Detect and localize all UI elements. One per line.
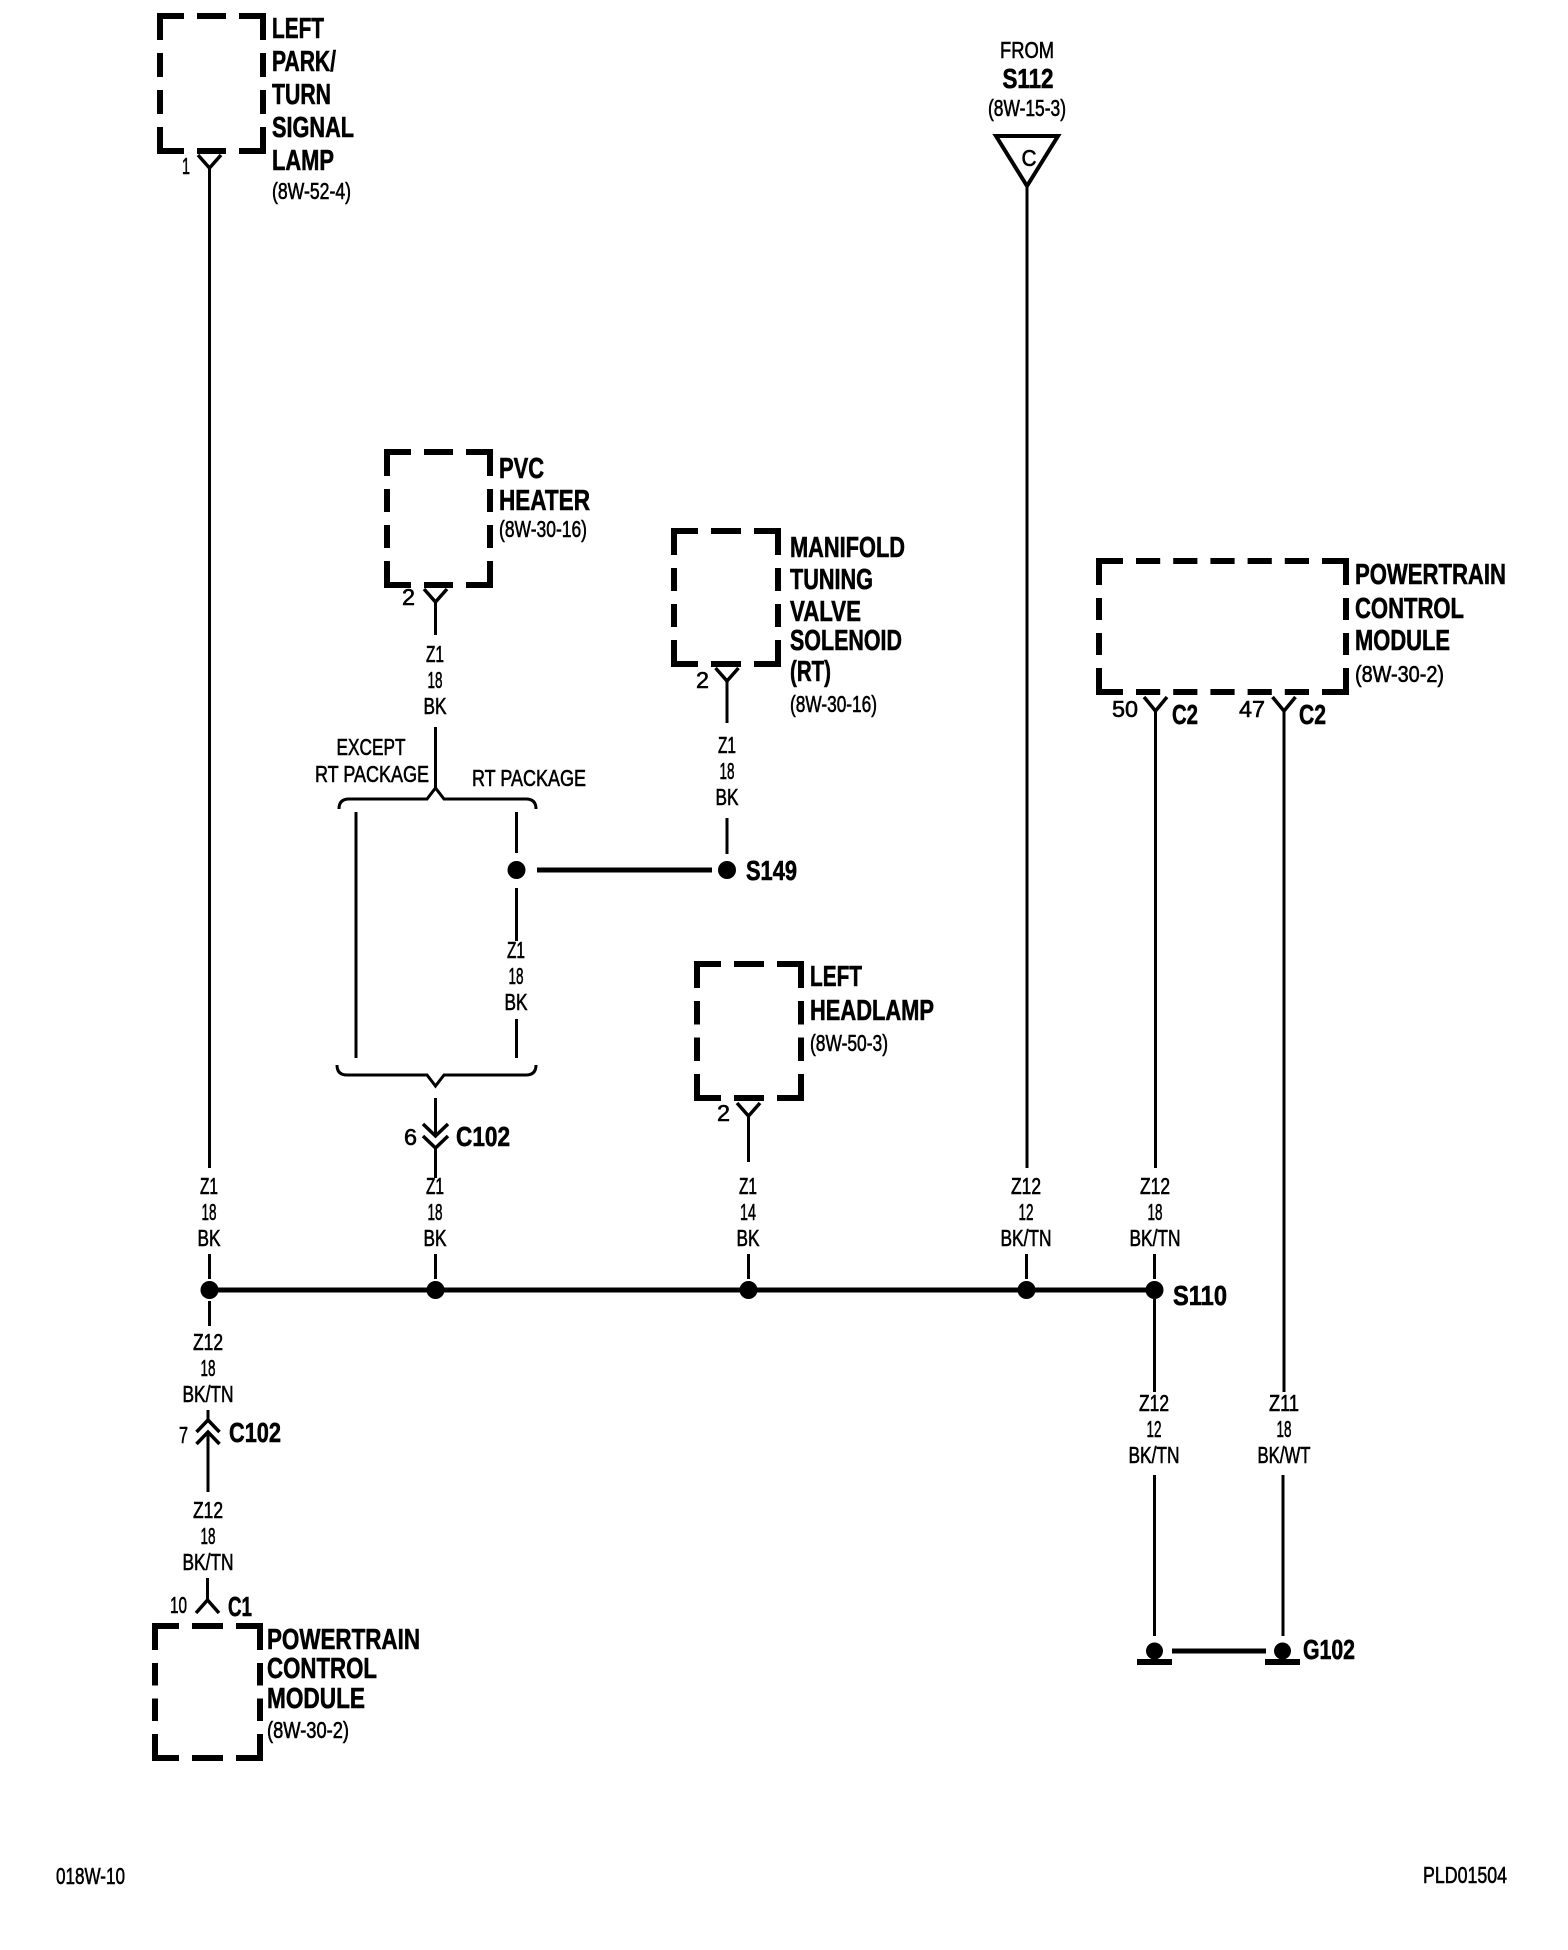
svg-text:Z1: Z1	[426, 641, 444, 667]
svg-text:Z1: Z1	[507, 937, 525, 963]
pin 10 C1 of PCM (bottom)	[170, 1591, 252, 1622]
svg-text:BK/WT: BK/WT	[1258, 1442, 1311, 1468]
svg-text:PLD01504: PLD01504	[1423, 1862, 1507, 1888]
wire to pin 10 C1	[206, 1578, 209, 1600]
svg-text:CONTROL: CONTROL	[1355, 593, 1464, 625]
svg-text:6: 6	[404, 1124, 417, 1150]
splice junction on RT branch	[508, 861, 526, 879]
svg-text:7: 7	[179, 1422, 188, 1448]
svg-text:14: 14	[740, 1199, 756, 1225]
wire Z12 12 BK/TN from S110 to ground	[1153, 1299, 1156, 1392]
pin 2 of PVC heater	[402, 584, 447, 610]
wire PVC to brace	[434, 727, 437, 790]
wire stub above bus center	[434, 1254, 437, 1279]
svg-text:18: 18	[201, 1523, 216, 1549]
svg-text:(8W-30-16): (8W-30-16)	[790, 691, 877, 717]
svg-text:BK/TN: BK/TN	[1130, 1225, 1181, 1251]
svg-text:S110: S110	[1173, 1280, 1227, 1311]
svg-text:S149: S149	[746, 855, 797, 886]
svg-text:BK: BK	[424, 693, 447, 719]
main ground bus wire	[209, 1288, 1154, 1293]
svg-text:2: 2	[717, 1100, 730, 1126]
wire label Z1 18 BK (left column above bus)	[198, 1173, 221, 1251]
wire stem PVC pin 2	[434, 602, 437, 635]
junction dot left column	[201, 1281, 219, 1299]
svg-text:EXCEPT: EXCEPT	[337, 734, 406, 760]
svg-text:18: 18	[1277, 1416, 1292, 1442]
svg-text:(RT): (RT)	[790, 656, 831, 688]
component box LEFT PARK/TURN SIGNAL LAMP	[160, 16, 263, 151]
svg-text:BK: BK	[424, 1225, 447, 1251]
wire Z12 18 BK/TN from pin 50	[1154, 711, 1157, 1168]
svg-text:12: 12	[1019, 1199, 1034, 1225]
svg-text:LEFT: LEFT	[272, 13, 324, 45]
ground symbol left (S110 column)	[1137, 1643, 1172, 1666]
svg-text:BK/TN: BK/TN	[1001, 1225, 1052, 1251]
wire to C102 pin 7	[207, 1410, 210, 1421]
svg-text:PARK/: PARK/	[272, 46, 336, 78]
svg-text:1: 1	[182, 153, 190, 179]
pin 50 C2 of PCM	[1112, 696, 1198, 730]
wire stub above bus S112 column	[1025, 1254, 1028, 1279]
svg-text:HEADLAMP: HEADLAMP	[810, 995, 934, 1027]
svg-text:C: C	[1022, 145, 1037, 171]
svg-text:Z1: Z1	[200, 1173, 218, 1199]
svg-text:(8W-52-4): (8W-52-4)	[272, 178, 351, 204]
wire label Z12 18 BK/TN (to PCM C1)	[183, 1497, 234, 1575]
svg-text:(8W-50-3): (8W-50-3)	[810, 1030, 888, 1056]
ground G102	[1265, 1634, 1355, 1665]
label EXCEPT RT PACKAGE	[315, 734, 429, 787]
top brace	[339, 788, 536, 809]
pin 2 of left headlamp	[717, 1100, 760, 1126]
svg-text:18: 18	[1148, 1199, 1163, 1225]
svg-text:CONTROL: CONTROL	[267, 1653, 377, 1685]
wire between grounds	[1172, 1649, 1266, 1654]
wire Z1 18 BK from lamp pin 1 down to splice	[208, 168, 211, 1168]
svg-text:C2: C2	[1299, 699, 1326, 730]
svg-text:RT PACKAGE: RT PACKAGE	[315, 761, 429, 787]
label POWERTRAIN CONTROL MODULE (top right)	[1355, 559, 1506, 687]
svg-text:Z1: Z1	[739, 1173, 757, 1199]
svg-text:G102: G102	[1303, 1634, 1355, 1665]
svg-text:Z1: Z1	[426, 1173, 444, 1199]
svg-text:MODULE: MODULE	[267, 1683, 365, 1715]
wire pin 47 column lower	[1282, 1475, 1285, 1636]
wire label Z1 18 BK (RT branch)	[505, 937, 528, 1015]
svg-text:SOLENOID: SOLENOID	[790, 625, 902, 657]
wire stub above S110	[1153, 1254, 1156, 1279]
svg-text:18: 18	[509, 963, 524, 989]
svg-text:10: 10	[170, 1592, 187, 1618]
svg-text:18: 18	[720, 758, 735, 784]
component box POWERTRAIN CONTROL MODULE (top right)	[1099, 561, 1346, 692]
component box MANIFOLD TUNING VALVE SOLENOID (RT)	[674, 531, 778, 664]
svg-text:(8W-30-16): (8W-30-16)	[499, 516, 587, 542]
splice S149	[718, 855, 797, 886]
wire label Z11 18 BK/WT (pin 47 column)	[1258, 1390, 1311, 1468]
svg-text:Z11: Z11	[1269, 1390, 1299, 1416]
bottom brace	[337, 1065, 536, 1086]
svg-text:47: 47	[1239, 696, 1265, 722]
wire brace to connector C102 pin 6	[434, 1098, 437, 1136]
pin 1 of lamp	[182, 153, 221, 179]
component box POWERTRAIN CONTROL MODULE (bottom left)	[155, 1626, 260, 1758]
wire S149 horizontal link	[537, 868, 712, 873]
svg-text:(8W-30-2): (8W-30-2)	[1355, 661, 1444, 687]
svg-text:C2: C2	[1172, 699, 1198, 730]
wire label Z1 14 BK (headlamp)	[737, 1173, 760, 1251]
svg-text:2: 2	[696, 667, 709, 693]
svg-text:MODULE: MODULE	[1355, 625, 1450, 657]
wire label Z12 12 BK/TN (S110 to ground)	[1129, 1390, 1180, 1468]
wire RT branch to bottom brace	[515, 1019, 518, 1058]
svg-text:LEFT: LEFT	[810, 961, 862, 993]
wire Z1 14 BK from headlamp	[747, 1116, 750, 1162]
svg-text:Z12: Z12	[1140, 1173, 1170, 1199]
pin 2 of MTV solenoid	[696, 667, 739, 693]
svg-text:SIGNAL: SIGNAL	[272, 112, 354, 144]
svg-text:(8W-15-3): (8W-15-3)	[988, 95, 1066, 121]
svg-text:BK/TN: BK/TN	[1129, 1442, 1180, 1468]
svg-text:PVC: PVC	[499, 453, 544, 485]
svg-text:S112: S112	[1003, 63, 1054, 94]
svg-text:18: 18	[202, 1199, 217, 1225]
pin 47 C2 of PCM	[1239, 696, 1326, 730]
junction dot headlamp column	[740, 1281, 758, 1299]
svg-text:C102: C102	[456, 1121, 510, 1152]
label MANIFOLD TUNING VALVE SOLENOID	[790, 532, 905, 717]
svg-text:Z1: Z1	[718, 732, 736, 758]
svg-text:TURN: TURN	[272, 79, 331, 111]
wire Z1 18 BK from MTV pin 2	[726, 681, 729, 723]
wire stub below bus left	[208, 1301, 211, 1326]
svg-text:(8W-30-2): (8W-30-2)	[267, 1717, 349, 1743]
component box LEFT HEADLAMP	[697, 964, 801, 1098]
splice S110	[1146, 1280, 1228, 1311]
svg-text:50: 50	[1112, 696, 1138, 722]
svg-text:Z12: Z12	[193, 1497, 223, 1523]
svg-text:RT PACKAGE: RT PACKAGE	[472, 765, 586, 791]
svg-text:18: 18	[428, 1199, 443, 1225]
svg-text:Z12: Z12	[1011, 1173, 1041, 1199]
wire C102 pin 7 down	[207, 1432, 210, 1492]
svg-text:FROM: FROM	[1000, 37, 1054, 63]
svg-text:VALVE: VALVE	[790, 596, 861, 628]
svg-text:BK: BK	[716, 784, 739, 810]
svg-text:BK: BK	[198, 1225, 221, 1251]
svg-text:C1: C1	[228, 1591, 252, 1622]
wire S110 column lower	[1153, 1475, 1156, 1636]
off-page connector triangle C from S112	[996, 136, 1058, 186]
svg-text:POWERTRAIN: POWERTRAIN	[1355, 559, 1506, 591]
svg-text:BK: BK	[505, 989, 528, 1015]
svg-text:18: 18	[428, 667, 443, 693]
svg-text:C102: C102	[229, 1417, 281, 1448]
wire label Z1 18 BK (center column)	[424, 1173, 447, 1251]
label LEFT PARK/TURN SIGNAL LAMP	[272, 13, 354, 204]
wire C102 pin 6 down	[434, 1147, 437, 1178]
svg-text:BK: BK	[737, 1225, 760, 1251]
svg-text:12: 12	[1147, 1416, 1162, 1442]
junction dot center column	[427, 1281, 445, 1299]
svg-text:Z12: Z12	[1139, 1390, 1169, 1416]
component box PVC HEATER	[387, 452, 490, 585]
svg-text:BK/TN: BK/TN	[183, 1549, 234, 1575]
junction dot S112 column	[1018, 1281, 1036, 1299]
wire stub above bus left	[208, 1254, 211, 1279]
label PVC HEATER	[499, 453, 590, 542]
svg-text:LAMP: LAMP	[272, 145, 334, 177]
wire label Z1 18 BK (MTV solenoid)	[716, 732, 739, 810]
svg-text:TUNING: TUNING	[790, 564, 873, 596]
wire stub above bus headlamp	[747, 1254, 750, 1279]
svg-text:2: 2	[402, 584, 415, 610]
connector C102 pin 6	[404, 1121, 510, 1152]
connector C102 pin 7	[179, 1417, 281, 1448]
label POWERTRAIN CONTROL MODULE (bottom left)	[267, 1624, 420, 1743]
svg-text:MANIFOLD: MANIFOLD	[790, 532, 905, 564]
wire Z12 12 BK/TN from S112	[1026, 186, 1029, 1168]
svg-text:018W-10: 018W-10	[56, 1863, 125, 1889]
wire except-RT branch (left)	[355, 812, 358, 1058]
wire RT branch upper	[515, 812, 518, 853]
svg-text:BK/TN: BK/TN	[183, 1381, 234, 1407]
wire RT branch below junction	[515, 888, 518, 941]
svg-text:Z12: Z12	[193, 1329, 223, 1355]
wire label Z12 18 BK/TN (pin 50 column)	[1130, 1173, 1181, 1251]
wire MTV to splice S149	[726, 818, 729, 854]
wire label Z12 12 BK/TN (S112 column above bus)	[1001, 1173, 1052, 1251]
svg-text:HEATER: HEATER	[499, 485, 590, 517]
svg-text:POWERTRAIN: POWERTRAIN	[267, 1624, 420, 1656]
label LEFT HEADLAMP	[810, 961, 934, 1056]
wire Z11 18 BK/WT from pin 47	[1283, 711, 1286, 1392]
label FROM S112	[988, 37, 1066, 121]
svg-text:18: 18	[201, 1355, 216, 1381]
wire label Z1 18 BK (PVC heater)	[424, 641, 447, 719]
wire label Z12 18 BK/TN (left column below bus)	[183, 1329, 234, 1407]
